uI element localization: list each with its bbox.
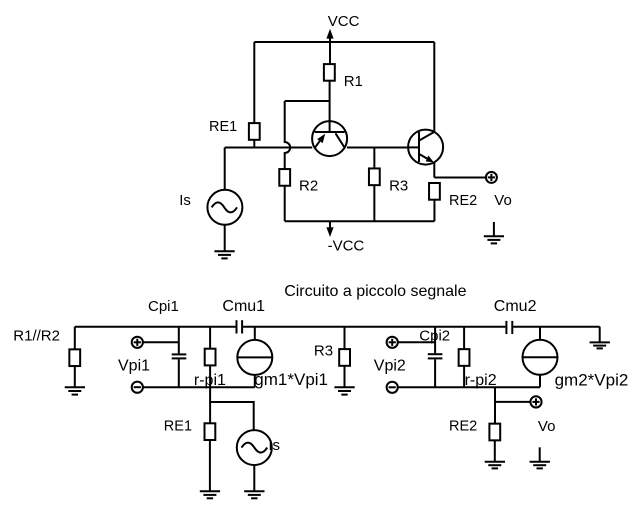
resistor R1//R2 <box>69 349 80 366</box>
resistor RE1 <box>249 123 260 140</box>
minus terminal Vpi1 <box>132 382 143 393</box>
ground below Is top <box>214 251 234 258</box>
wire R3 top lead <box>373 148 375 170</box>
wire Is bottom lead <box>224 225 226 251</box>
wire RE2 bottom drop <box>494 387 496 423</box>
wire Is bottom lead 2 <box>253 465 255 491</box>
svg-text:RE1: RE1 <box>164 419 192 435</box>
svg-text:Circuito a piccolo segnale: Circuito a piccolo segnale <box>284 283 466 300</box>
wire Cpi2 top lead <box>434 327 436 354</box>
svg-text:R2: R2 <box>299 178 318 195</box>
wire RE2 bottom lead <box>433 199 435 221</box>
svg-text:Vpi2: Vpi2 <box>374 357 406 374</box>
plus terminal Vpi1 <box>132 337 143 348</box>
wire Cpi2 bottom lead <box>434 359 436 387</box>
wire gm2 top lead <box>539 327 541 340</box>
wire R1 top lead <box>329 42 331 65</box>
resistor R3 bottom <box>339 349 350 366</box>
plus terminal Vo top <box>486 172 497 183</box>
wire RE1 bottom lead <box>253 140 255 148</box>
svg-text:R3: R3 <box>314 342 333 359</box>
wire Cpi1 bottom lead <box>178 359 180 387</box>
plus terminal Vpi2 <box>387 337 398 348</box>
svg-text:RE2: RE2 <box>449 193 477 209</box>
resistor R2 <box>279 169 290 186</box>
svg-text:VCC: VCC <box>328 13 360 30</box>
ground below R3 bottom <box>334 387 354 394</box>
wire gm1 bottom lead <box>254 375 256 387</box>
wire R3 bottom top lead <box>344 327 346 350</box>
wire bottom node left <box>143 386 255 388</box>
wire RE1 bottom lead 2 <box>209 440 211 491</box>
wire bottom rail <box>285 220 435 222</box>
svg-text:R1: R1 <box>344 73 363 90</box>
capacitor Cmu2 <box>506 321 512 334</box>
svg-text:Cmu1: Cmu1 <box>222 298 265 315</box>
wire top rail right segment <box>513 326 599 328</box>
wire r-pi2 bottom lead <box>463 366 465 388</box>
svg-text:RE2: RE2 <box>449 419 477 435</box>
wire main left <box>225 147 313 149</box>
source Is bottom <box>237 430 272 465</box>
ground top right <box>590 342 610 348</box>
resistor RE2 bottom <box>489 424 500 441</box>
svg-text:Is: Is <box>179 192 191 209</box>
resistor RE2 <box>429 183 440 200</box>
wire Cpi1 top lead <box>178 327 180 354</box>
source gm1*Vpi1 <box>237 340 272 375</box>
ground below Vo bottom <box>530 447 550 468</box>
ground below Vo top <box>484 222 504 243</box>
ground below R1//R2 <box>65 387 85 394</box>
ground below RE1 bottom <box>200 491 220 498</box>
wire Vpi1 plus lead <box>143 341 179 343</box>
resistor r-pi2 <box>459 349 470 366</box>
svg-text:Vo: Vo <box>538 418 556 435</box>
wire RE1 drop <box>253 42 255 124</box>
wire Q2 emitter <box>433 163 435 178</box>
transistor Q1 <box>312 121 347 156</box>
wire R3 bottom lead 2 <box>344 366 346 388</box>
wire Is top lead <box>224 148 226 191</box>
wire R1 bottom lead <box>329 81 331 133</box>
svg-text:-VCC: -VCC <box>328 238 365 255</box>
wire branch to Vo plus <box>495 401 530 403</box>
wire r-pi1 bottom lead <box>209 365 211 423</box>
capacitor Cpi2 <box>428 354 443 358</box>
wire main middle <box>347 147 408 149</box>
wire RE2 bottom lead 2 <box>494 440 496 462</box>
capacitor Cpi1 <box>172 354 187 358</box>
svg-text:gm1*Vpi1: gm1*Vpi1 <box>254 370 328 389</box>
svg-text:gm2*Vpi2: gm2*Vpi2 <box>555 370 629 389</box>
wire Vpi2 plus lead <box>398 341 435 343</box>
resistor R1 <box>324 64 335 81</box>
source gm2*Vpi2 <box>523 340 558 375</box>
wire R3 bottom lead <box>373 185 375 221</box>
resistor R3 <box>369 168 380 185</box>
wire branch to Is bottom <box>210 402 254 430</box>
svg-text:r-pi2: r-pi2 <box>465 372 497 389</box>
wire gm1 top lead <box>254 327 256 340</box>
wire base loop vertical with hop <box>285 101 291 170</box>
capacitor Cmu1 <box>237 320 243 333</box>
wire bottom node right <box>398 386 540 388</box>
wire top rail middle segment <box>243 326 505 328</box>
ground below Is bottom <box>244 491 264 498</box>
wire base loop horizontal <box>285 100 330 102</box>
wire right ground stem <box>599 327 601 343</box>
wire top rail <box>254 41 434 43</box>
wire R2 bottom lead <box>284 186 286 222</box>
svg-text:Is: Is <box>268 437 280 454</box>
ground below RE2 bottom <box>485 462 505 469</box>
transistor Q2 <box>408 130 443 165</box>
svg-text:Vpi1: Vpi1 <box>118 357 150 374</box>
wire Q2 collector <box>433 42 435 132</box>
plus terminal Vo bottom <box>530 396 541 407</box>
wire emitter node to Vo <box>434 177 485 179</box>
svg-text:R3: R3 <box>389 178 408 195</box>
wire r-pi2 top lead <box>463 327 465 350</box>
wire top rail left segment <box>75 326 236 328</box>
wire R1//R2 top lead <box>74 327 76 350</box>
resistor r-pi1 <box>205 349 216 366</box>
power -VCC arrow <box>326 221 333 237</box>
svg-text:RE1: RE1 <box>209 119 237 135</box>
source Is top <box>207 190 242 225</box>
minus terminal Vpi2 <box>387 382 398 393</box>
svg-text:R1//R2: R1//R2 <box>13 328 60 345</box>
resistor RE1 bottom <box>205 423 216 440</box>
wire R1//R2 bottom lead <box>74 366 76 388</box>
wire gm2 bottom lead <box>539 375 541 388</box>
wire r-pi1 top lead <box>209 327 211 349</box>
svg-text:Vo: Vo <box>494 192 512 209</box>
svg-text:Cmu2: Cmu2 <box>494 298 537 315</box>
power VCC arrow <box>326 29 333 42</box>
svg-text:Cpi1: Cpi1 <box>148 298 179 315</box>
